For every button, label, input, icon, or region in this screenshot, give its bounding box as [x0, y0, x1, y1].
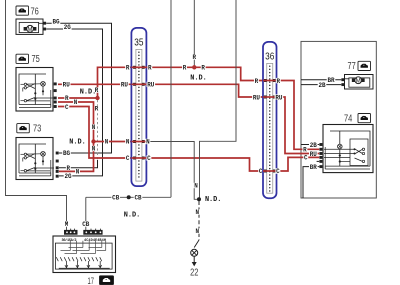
- svg-text:75: 75: [32, 54, 41, 65]
- svg-text:C: C: [276, 168, 280, 175]
- switch 73 internals: [19, 144, 46, 173]
- wire 2B to switch 74: [301, 144, 319, 146]
- wire N dash-dot down to ground 22: [198, 201, 200, 240]
- wire RV from connector 35 to connector 36: [146, 84, 263, 97]
- svg-text:RU: RU: [121, 82, 128, 89]
- wire N from switch 75 down to junction and connector 35: [58, 102, 94, 171]
- svg-text:74: 74: [344, 114, 353, 125]
- svg-text:N.D.: N.D.: [205, 196, 222, 204]
- svg-text:76: 76: [31, 6, 40, 17]
- big right compartment box: [301, 41, 376, 198]
- svg-text:R: R: [303, 147, 307, 154]
- ground 22 symbol: [191, 249, 198, 256]
- svg-text:N: N: [74, 99, 78, 106]
- svg-text:77: 77: [348, 61, 357, 72]
- svg-text:C: C: [304, 155, 308, 162]
- switch 75 pins: [54, 82, 57, 85]
- svg-text:R: R: [193, 54, 197, 61]
- svg-text:C: C: [65, 104, 69, 111]
- svg-text:N: N: [105, 139, 109, 146]
- svg-text:N: N: [76, 168, 80, 175]
- wire 2B to motor 77: [301, 84, 341, 86]
- svg-text:CB: CB: [112, 194, 119, 201]
- fuse unit 17 pin block B: [84, 230, 102, 234]
- motor 77 (window lifter motor): [345, 75, 374, 90]
- svg-text:RU: RU: [63, 81, 70, 88]
- component 73 car icon: [17, 124, 30, 133]
- switch 73 (rear window switch) box: [16, 138, 53, 180]
- svg-text:M: M: [65, 221, 69, 228]
- motor 76 (window lifter motor): [16, 19, 43, 34]
- motor 77 pin 1: [341, 78, 344, 81]
- wire C from connector 36 to switch 74: [277, 157, 320, 171]
- wire from top down at x=236 to ground junction: [200, 0, 237, 199]
- switch 74 pins: [319, 143, 322, 146]
- svg-text:36: 36: [265, 51, 274, 63]
- svg-text:RU: RU: [253, 94, 260, 101]
- wire M (from top-left down to fuse unit 17): [6, 0, 67, 231]
- svg-text:BG: BG: [52, 19, 59, 26]
- svg-text:35: 35: [134, 37, 143, 49]
- svg-text:BR: BR: [310, 164, 317, 171]
- dashed wire R continuation down to switch 73: [97, 100, 99, 160]
- motor 76 pin 1: [43, 22, 46, 25]
- fuse unit 17 inner box: [55, 243, 112, 269]
- svg-text:N: N: [126, 139, 130, 146]
- svg-text:RU: RU: [275, 94, 282, 101]
- red wires crossing connector 35: [131, 66, 146, 68]
- red wires crossing connector 36: [263, 80, 277, 82]
- junction node R (N.D.) at switch 75: [95, 96, 99, 100]
- svg-text:RU: RU: [147, 82, 154, 89]
- svg-text:N.D.: N.D.: [69, 139, 86, 147]
- svg-text:N: N: [92, 146, 96, 153]
- fuse unit 17 car icon (dark): [100, 276, 114, 285]
- wire BR to switch 74 from box bottom: [303, 167, 319, 198]
- svg-text:2G: 2G: [64, 173, 71, 180]
- svg-text:N.D.: N.D.: [190, 74, 207, 82]
- connector 36: [263, 42, 277, 198]
- junction node N (N.D.) at ground: [197, 197, 201, 201]
- svg-text:R: R: [201, 65, 205, 72]
- wire N from connector 35 to ground junction: [146, 142, 199, 200]
- wire R from connector 36 to switch 74: [277, 81, 320, 150]
- svg-text:22: 22: [190, 267, 199, 278]
- component 77 car icon: [358, 61, 371, 70]
- svg-text:R: R: [126, 65, 130, 72]
- svg-text:2B: 2B: [310, 142, 317, 149]
- wire BG from motor 76 to switch 73: [46, 23, 111, 153]
- svg-text:M: M: [27, 26, 32, 33]
- svg-text:R: R: [183, 65, 187, 72]
- component 76 car icon: [16, 6, 29, 15]
- component 75 car icon: [16, 54, 29, 63]
- component 74 car icon: [358, 114, 371, 123]
- svg-text:2B: 2B: [318, 82, 325, 89]
- svg-text:N.D.: N.D.: [80, 88, 97, 96]
- fuse unit 17 box: [53, 236, 116, 273]
- svg-text:CB: CB: [82, 221, 89, 228]
- svg-text:M: M: [356, 77, 361, 84]
- svg-text:4C4D4E4B4H: 4C4D4E4B4H: [84, 239, 106, 243]
- wire C from switch 75 to connector 35: [58, 107, 131, 159]
- svg-text:R: R: [148, 65, 152, 72]
- wire 2G from motor 76 to switch 73: [46, 29, 102, 176]
- svg-text:N: N: [92, 124, 96, 131]
- connector 35: [131, 28, 146, 186]
- svg-text:R: R: [95, 106, 99, 113]
- svg-text:N: N: [194, 183, 198, 190]
- svg-text:N.D.: N.D.: [124, 212, 141, 220]
- svg-text:N: N: [196, 228, 200, 235]
- wire R from roof (top) down to junction: [193, 0, 195, 67]
- svg-text:30/15A/2: 30/15A/2: [62, 238, 77, 243]
- motor 76 pin 2: [43, 28, 46, 31]
- wire RV from switch 75 to connector 35: [58, 83, 131, 85]
- svg-text:17: 17: [88, 276, 95, 285]
- junction node N (N.D.): [91, 139, 95, 143]
- svg-text:C: C: [126, 155, 130, 162]
- switch 75 internals: [19, 74, 46, 105]
- fuse unit 17 internal wiring: [59, 259, 107, 261]
- svg-text:CB: CB: [134, 194, 141, 201]
- svg-text:R: R: [255, 78, 259, 85]
- wire CB vertical from top: [170, 0, 172, 197]
- junction node CB (N.D.): [127, 195, 131, 199]
- motor 77 pin 2: [341, 83, 344, 86]
- wire R from connector 35 to connector 36: [146, 67, 263, 80]
- svg-text:BR: BR: [327, 77, 334, 84]
- svg-text:2G: 2G: [64, 24, 71, 31]
- junction node R (N.D.) middle: [192, 65, 196, 69]
- wire BR to motor 77: [301, 79, 341, 81]
- svg-text:73: 73: [33, 124, 42, 135]
- wire C from connector 35 to connector 36: [146, 158, 263, 171]
- svg-text:R: R: [277, 78, 281, 85]
- stub pin 5 switch 74: [317, 160, 320, 162]
- svg-text:N: N: [146, 139, 150, 146]
- switch 73 pins: [56, 152, 59, 155]
- wire R from switch 75 up to connector 35: [58, 67, 131, 98]
- svg-text:C: C: [147, 155, 151, 162]
- wire RV from connector 36 to switch 74: [277, 97, 320, 154]
- svg-text:N: N: [196, 209, 200, 216]
- wire CB horizontal to fuse unit 17: [86, 196, 171, 198]
- switch 75 (front window switch) box: [16, 68, 53, 112]
- switch 74 internals: [330, 131, 370, 166]
- svg-text:R: R: [65, 95, 69, 102]
- fuse unit 17 pin block A: [65, 230, 78, 234]
- wire N junction to connector 35: [94, 141, 132, 143]
- svg-text:BG: BG: [63, 150, 70, 157]
- switch 74 (rear window switch) box: [323, 125, 373, 173]
